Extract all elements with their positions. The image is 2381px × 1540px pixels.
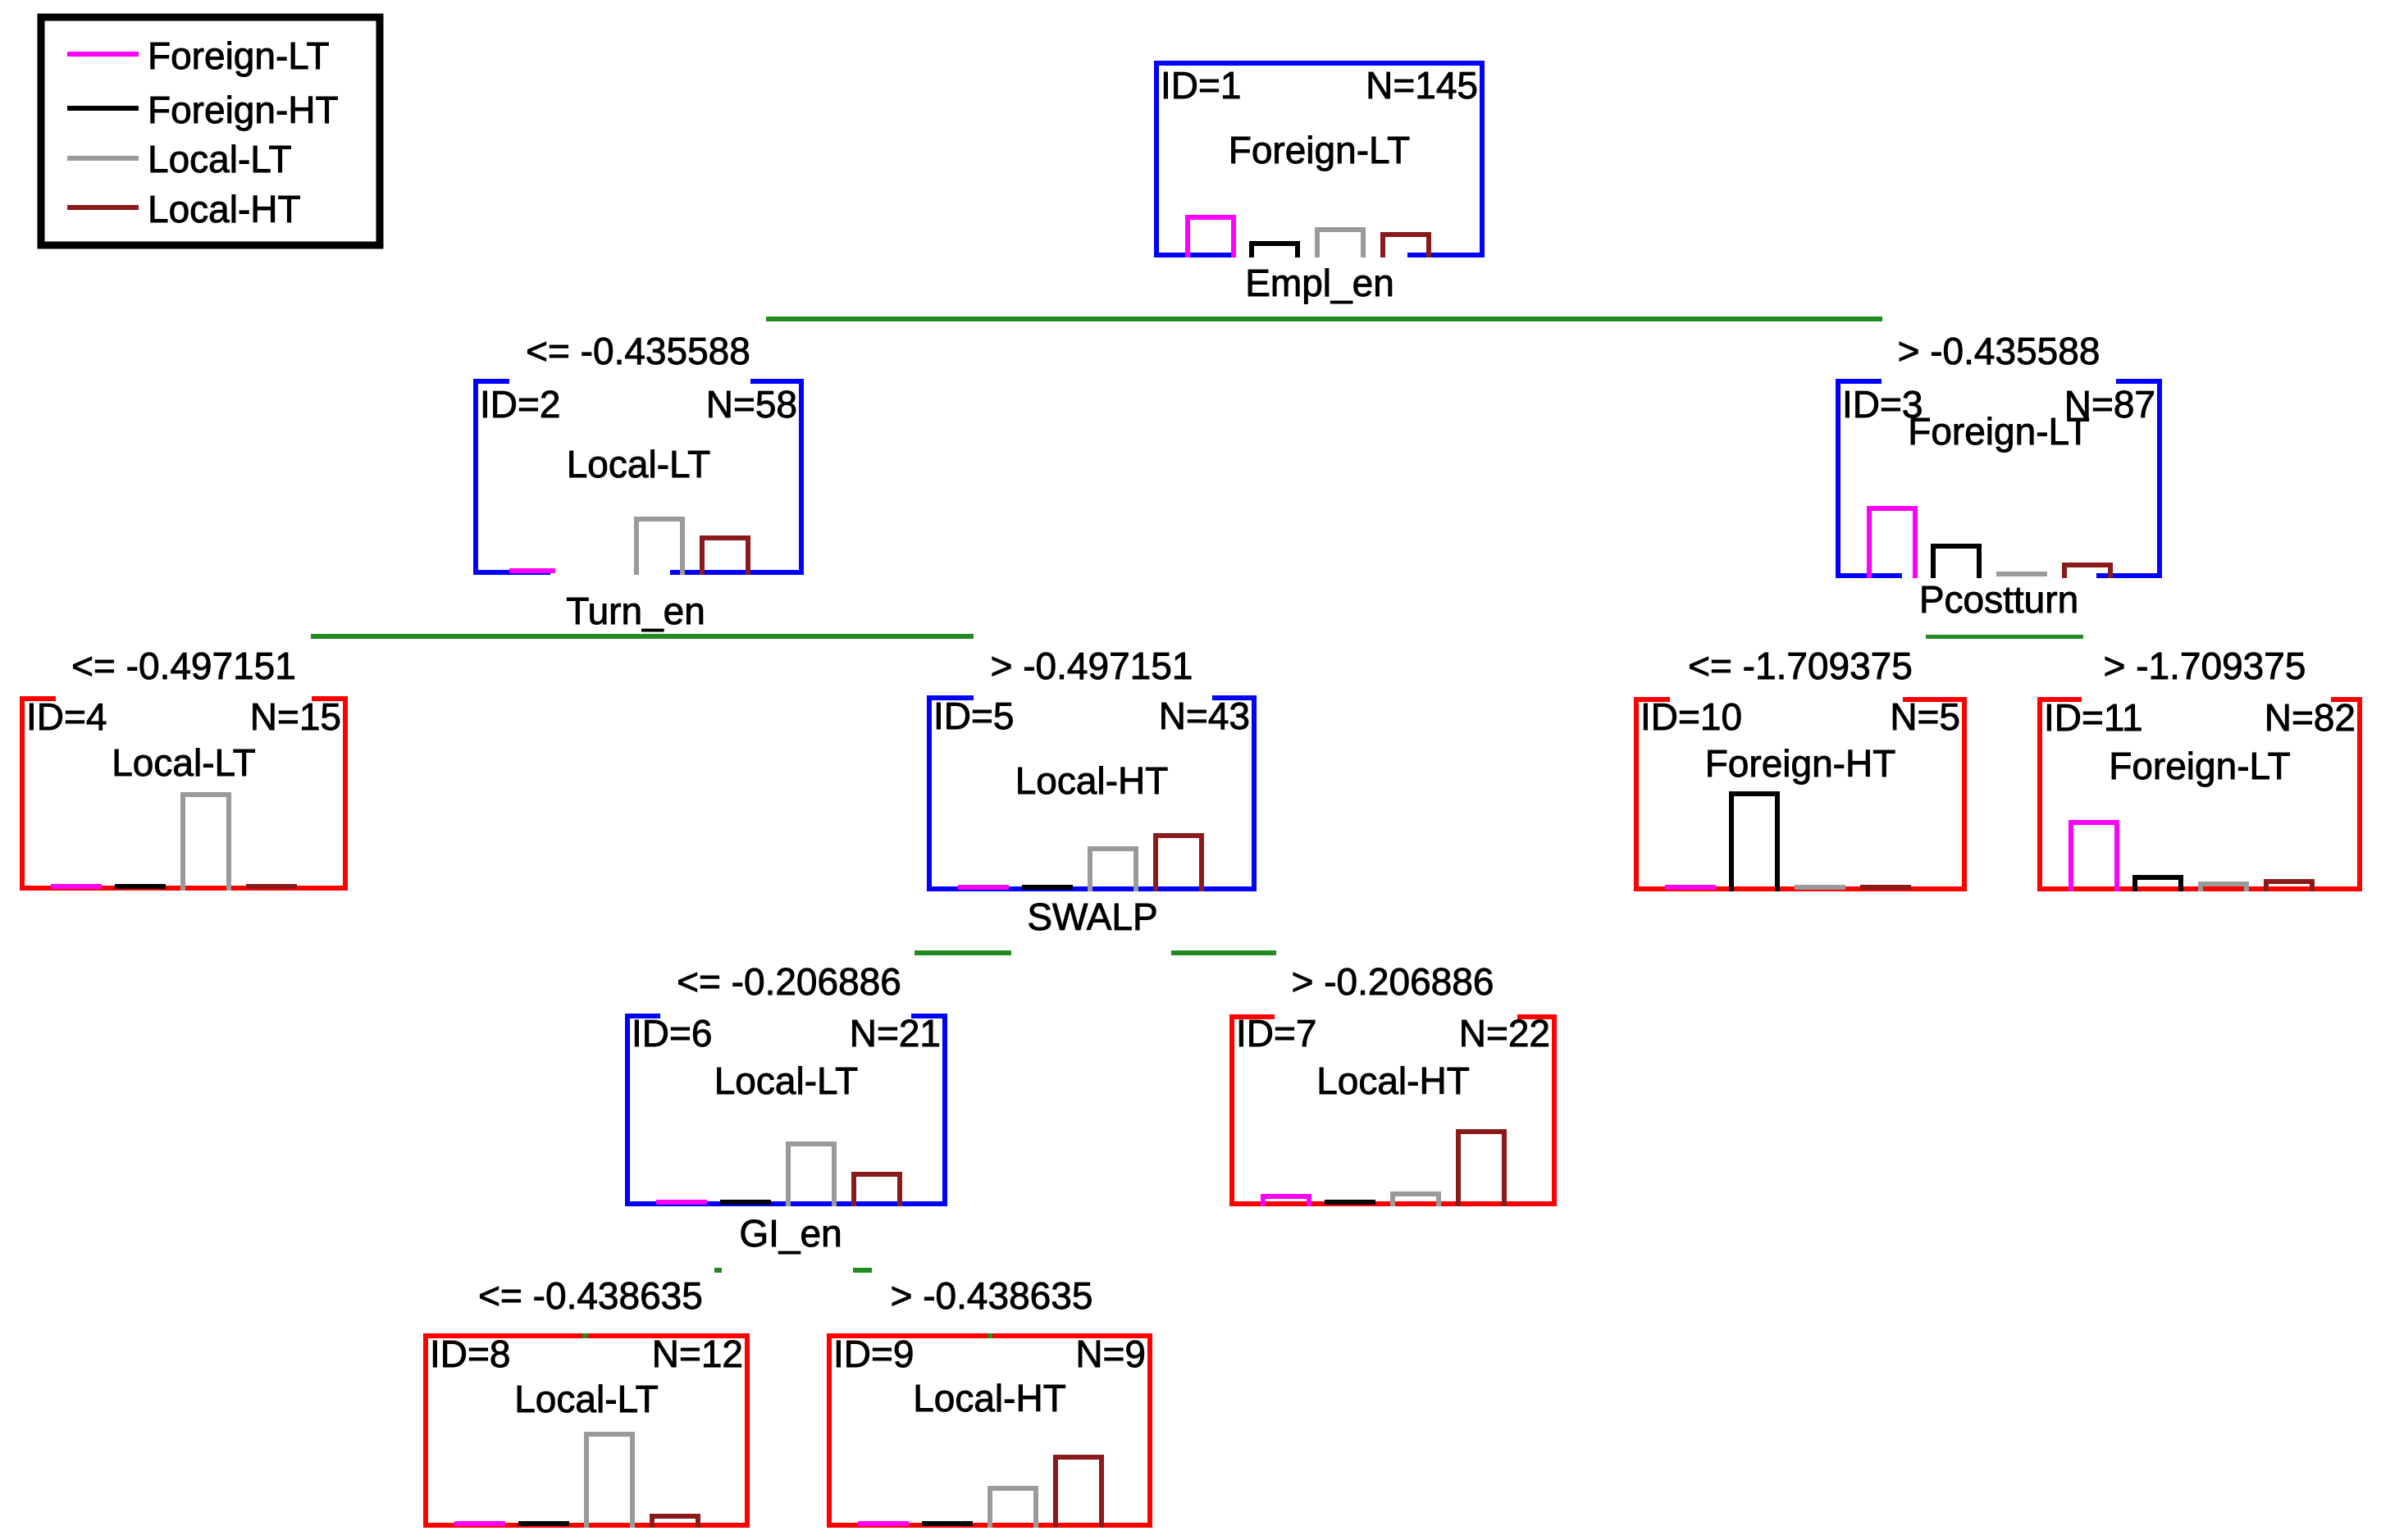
svg-text:ID=4: ID=4 <box>26 695 107 738</box>
svg-text:ID=10: ID=10 <box>1640 695 1742 738</box>
node ID=7 histogram Foreign-HT bar <box>1325 1200 1375 1205</box>
svg-text:> -0.435588: > -0.435588 <box>1898 330 2100 372</box>
svg-text:ID=2: ID=2 <box>480 383 560 426</box>
node ID=9 histogram Local-HT bar <box>1056 1457 1102 1528</box>
node ID=7 histogram Local-LT bar <box>1393 1194 1439 1206</box>
svg-text:Local-HT: Local-HT <box>1015 759 1169 802</box>
node ID=2 box (Local-LT) <box>473 379 804 575</box>
svg-text:<= -1.709375: <= -1.709375 <box>1688 645 1913 687</box>
svg-text:Local-HT: Local-HT <box>1316 1059 1470 1102</box>
svg-text:Foreign-HT: Foreign-HT <box>1705 742 1896 785</box>
node ID=7 box (Local-HT) <box>1229 1014 1557 1206</box>
branch line from node 3 to children (green) <box>1926 635 2083 639</box>
node ID=4 histogram Foreign-HT bar <box>115 884 166 889</box>
node ID=5 histogram Foreign-LT bar <box>958 885 1009 890</box>
svg-text:Foreign-LT: Foreign-LT <box>2109 745 2291 787</box>
branch dash to node 9 (green) <box>853 1268 872 1273</box>
svg-text:N=58: N=58 <box>706 383 797 426</box>
node ID=5 box (Local-HT) <box>927 695 1257 891</box>
svg-text:Local-LT: Local-LT <box>148 138 292 180</box>
node ID=2 histogram Local-HT bar <box>702 538 748 575</box>
svg-text:Local-LT: Local-LT <box>112 741 256 784</box>
node ID=3 histogram Local-LT bar <box>1996 572 2047 576</box>
node ID=6 box (Local-LT) <box>625 1014 947 1206</box>
node ID=11 histogram Local-LT bar <box>2201 884 2246 891</box>
node ID=10 histogram Local-LT bar <box>1795 885 1845 890</box>
node ID=8 histogram Local-LT bar <box>586 1434 632 1528</box>
node ID=11 histogram Local-HT bar <box>2266 882 2312 891</box>
node ID=10 box (Foreign-HT) <box>1634 697 1967 891</box>
svg-text:N=5: N=5 <box>1890 695 1960 738</box>
node ID=4 histogram Local-LT bar <box>183 795 229 891</box>
svg-text:Pcostturn: Pcostturn <box>1919 578 2078 621</box>
node ID=6 histogram Foreign-LT bar <box>656 1200 707 1205</box>
node ID=7 histogram Foreign-LT bar <box>1263 1196 1309 1206</box>
node ID=10 histogram Foreign-LT bar <box>1665 885 1716 890</box>
svg-text:Turn_en: Turn_en <box>566 590 705 632</box>
svg-text:Local-HT: Local-HT <box>913 1377 1066 1419</box>
node ID=6 histogram Foreign-HT bar <box>720 1200 771 1205</box>
node ID=10 histogram Foreign-HT bar <box>1731 794 1777 891</box>
svg-text:ID=7: ID=7 <box>1236 1012 1316 1055</box>
svg-text:Local-LT: Local-LT <box>567 443 711 485</box>
legend line Foreign-LT (magenta) <box>67 52 139 57</box>
node ID=2 histogram Local-LT bar <box>636 519 682 575</box>
node ID=5 histogram Local-HT bar <box>1156 836 1202 891</box>
node ID=1 histogram Foreign-LT bar <box>1188 217 1234 257</box>
svg-text:Local-LT: Local-LT <box>714 1059 859 1102</box>
branch dash to node 8 (green) <box>714 1268 722 1273</box>
svg-text:ID=1: ID=1 <box>1161 64 1241 107</box>
svg-text:N=9: N=9 <box>1075 1333 1146 1375</box>
svg-text:<= -0.206886: <= -0.206886 <box>677 960 901 1003</box>
legend line Foreign-HT (black) <box>67 106 139 111</box>
node ID=9 box (Local-HT) <box>827 1333 1152 1528</box>
svg-text:N=22: N=22 <box>1459 1012 1550 1055</box>
node ID=11 histogram Foreign-HT bar <box>2135 877 2181 891</box>
svg-text:<= -0.435588: <= -0.435588 <box>526 330 750 372</box>
node ID=8 histogram Foreign-HT bar <box>518 1521 569 1526</box>
node ID=3 histogram Foreign-HT bar <box>1933 546 1979 578</box>
node ID=1 histogram Local-HT bar <box>1383 235 1429 257</box>
node ID=11 histogram Foreign-LT bar <box>2071 822 2117 891</box>
svg-text:Foreign-LT: Foreign-LT <box>1908 410 2090 453</box>
svg-text:Empl_en: Empl_en <box>1245 262 1394 304</box>
branch line from node 1 to children (green) <box>766 317 1882 321</box>
legend line Local-HT (dark red) <box>67 205 139 210</box>
branch endpoint dot on node 9 top (green) <box>988 1333 992 1338</box>
node ID=6 histogram Local-HT bar <box>854 1174 900 1206</box>
svg-text:GI_en: GI_en <box>739 1212 842 1255</box>
node ID=8 box (Local-LT) <box>423 1333 750 1528</box>
svg-text:N=15: N=15 <box>250 695 341 738</box>
svg-text:Foreign-LT: Foreign-LT <box>1229 129 1411 171</box>
svg-text:ID=5: ID=5 <box>933 695 1014 737</box>
node ID=9 histogram Local-LT bar <box>990 1488 1036 1528</box>
svg-text:N=43: N=43 <box>1159 695 1250 737</box>
svg-text:ID=9: ID=9 <box>833 1333 914 1375</box>
node ID=11 box (Foreign-LT) <box>2037 697 2362 891</box>
svg-text:<= -0.438635: <= -0.438635 <box>478 1274 703 1317</box>
svg-text:> -0.438635: > -0.438635 <box>891 1274 1093 1317</box>
node ID=10 histogram Local-HT bar <box>1860 885 1911 890</box>
svg-text:> -1.709375: > -1.709375 <box>2104 645 2306 687</box>
svg-text:N=12: N=12 <box>652 1333 743 1375</box>
svg-text:<= -0.497151: <= -0.497151 <box>71 645 296 687</box>
node ID=9 histogram Foreign-HT bar <box>922 1521 973 1526</box>
node ID=1 histogram Foreign-HT bar <box>1252 244 1298 257</box>
node ID=1 box (Foreign-LT) <box>1154 61 1485 257</box>
node ID=4 histogram Foreign-LT bar <box>51 884 102 889</box>
svg-text:ID=6: ID=6 <box>632 1012 712 1055</box>
node ID=4 histogram Local-HT bar <box>246 884 297 889</box>
node ID=4 box (Local-LT) <box>20 696 348 891</box>
node ID=5 histogram Foreign-HT bar <box>1022 885 1073 890</box>
svg-text:> -0.206886: > -0.206886 <box>1292 960 1494 1003</box>
svg-text:ID=8: ID=8 <box>430 1333 510 1375</box>
node ID=6 histogram Local-LT bar <box>788 1144 834 1206</box>
node ID=5 histogram Local-LT bar <box>1090 849 1136 891</box>
node ID=8 histogram Local-HT bar <box>652 1516 698 1528</box>
branch line to node 7 (green) <box>1171 950 1276 955</box>
branch endpoint dot on node 8 top (green) <box>582 1333 588 1338</box>
svg-text:Local-HT: Local-HT <box>148 188 301 230</box>
svg-text:> -0.497151: > -0.497151 <box>991 645 1193 687</box>
node ID=1 histogram Local-LT bar <box>1317 230 1363 257</box>
svg-text:SWALP: SWALP <box>1027 895 1157 938</box>
svg-text:N=21: N=21 <box>850 1012 941 1055</box>
svg-text:N=82: N=82 <box>2265 696 2356 739</box>
svg-text:Foreign-LT: Foreign-LT <box>148 34 330 77</box>
svg-text:N=145: N=145 <box>1366 64 1478 107</box>
node ID=7 histogram Local-HT bar <box>1458 1132 1504 1206</box>
svg-text:Foreign-HT: Foreign-HT <box>148 89 339 131</box>
legend box <box>41 17 380 245</box>
node ID=3 histogram Foreign-LT bar <box>1869 508 1915 578</box>
node ID=9 histogram Foreign-LT bar <box>858 1521 909 1526</box>
node ID=2 histogram Foreign-LT bar <box>509 568 555 573</box>
node ID=3 box (Foreign-LT) <box>1836 379 2162 578</box>
svg-text:ID=11: ID=11 <box>2044 696 2143 739</box>
node ID=3 histogram Local-HT bar <box>2064 565 2110 578</box>
svg-text:Local-LT: Local-LT <box>514 1378 659 1420</box>
node ID=8 histogram Foreign-LT bar <box>454 1521 505 1526</box>
branch line from node 2 to children (green) <box>311 634 974 639</box>
branch line to node 6 (green) <box>915 950 1011 955</box>
legend line Local-LT (gray) <box>67 156 139 161</box>
